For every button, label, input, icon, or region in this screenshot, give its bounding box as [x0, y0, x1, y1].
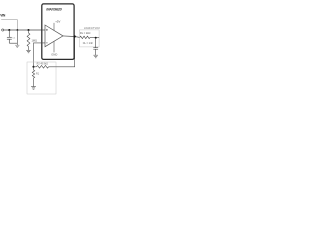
- svg-text:+5V: +5V: [55, 20, 60, 24]
- svg-text:MAX9620: MAX9620: [46, 7, 62, 12]
- wire RL to node: [90, 36, 99, 38]
- wire leader from VIN label to node: [1, 20, 17, 30]
- ground pin GND: [53, 41, 55, 52]
- feedback network box: [27, 62, 56, 94]
- node load junction: [95, 37, 97, 39]
- svg-text:R2 49.9kΩ: R2 49.9kΩ: [37, 63, 49, 66]
- node output junction: [74, 35, 76, 37]
- svg-text:GND: GND: [51, 53, 57, 57]
- svg-text:CL = 1nF: CL = 1nF: [83, 42, 94, 45]
- svg-text:VIN: VIN: [0, 13, 6, 17]
- node feedback junction: [32, 66, 34, 68]
- svg-text:RL = 2kΩ: RL = 2kΩ: [80, 32, 91, 35]
- IC box MAX9620: [42, 4, 74, 60]
- op-amp minus sign: [46, 42, 48, 44]
- ground bias resistor: [26, 50, 31, 53]
- input terminal: [2, 29, 4, 31]
- op-amp U1: [45, 25, 63, 47]
- ground input: [15, 45, 19, 47]
- node ground junction: [17, 29, 19, 31]
- capacitor C1: [7, 30, 17, 43]
- wire dot to R2: [34, 66, 37, 68]
- resistor R2: [37, 66, 49, 69]
- wire input to op-amp: [4, 29, 45, 31]
- load network box: [79, 30, 99, 47]
- wire node to ground: [16, 30, 18, 45]
- node R bias junction: [27, 29, 29, 31]
- resistor RL: [80, 36, 90, 38]
- wire + input inside box: [42, 29, 45, 31]
- capacitor CL: [93, 38, 98, 55]
- svg-text:1MΩ: 1MΩ: [32, 39, 37, 42]
- op-amp plus sign: [46, 29, 48, 31]
- ground R1: [31, 87, 36, 90]
- supply pin +5V: [53, 23, 55, 31]
- wire inverting input: [34, 43, 46, 67]
- resistor 1M: [27, 30, 30, 50]
- ground load: [93, 55, 98, 58]
- resistor R1: [32, 67, 34, 87]
- svg-text:LOAD AT VOUT: LOAD AT VOUT: [84, 27, 100, 30]
- wire R2 to output: [49, 36, 75, 67]
- wire op-amp output: [63, 36, 80, 38]
- node C1 junction: [8, 29, 10, 31]
